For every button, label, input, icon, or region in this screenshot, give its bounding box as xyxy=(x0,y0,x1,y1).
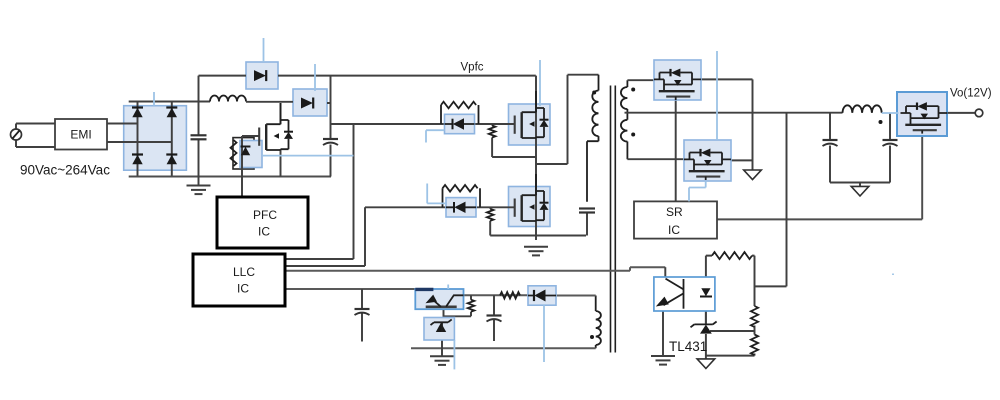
svg-text:IC: IC xyxy=(258,225,270,239)
svg-text:90Vac~264Vac: 90Vac~264Vac xyxy=(20,163,110,178)
svg-text:Vo(12V): Vo(12V) xyxy=(950,88,992,100)
svg-text:PFC: PFC xyxy=(253,208,277,222)
svg-text:LLC: LLC xyxy=(233,265,255,279)
svg-text:EMI: EMI xyxy=(70,128,91,142)
svg-text:Vpfc: Vpfc xyxy=(461,62,484,74)
svg-text:IC: IC xyxy=(237,282,249,296)
svg-text:SR: SR xyxy=(666,205,683,219)
svg-text:TL431: TL431 xyxy=(669,339,707,354)
svg-text:IC: IC xyxy=(668,223,680,237)
